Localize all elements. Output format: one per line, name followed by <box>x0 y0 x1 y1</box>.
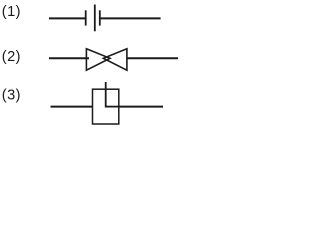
svg-text:(1): (1) <box>2 4 21 20</box>
svg-text:(3): (3) <box>2 88 21 104</box>
svg-text:(2): (2) <box>2 49 21 65</box>
